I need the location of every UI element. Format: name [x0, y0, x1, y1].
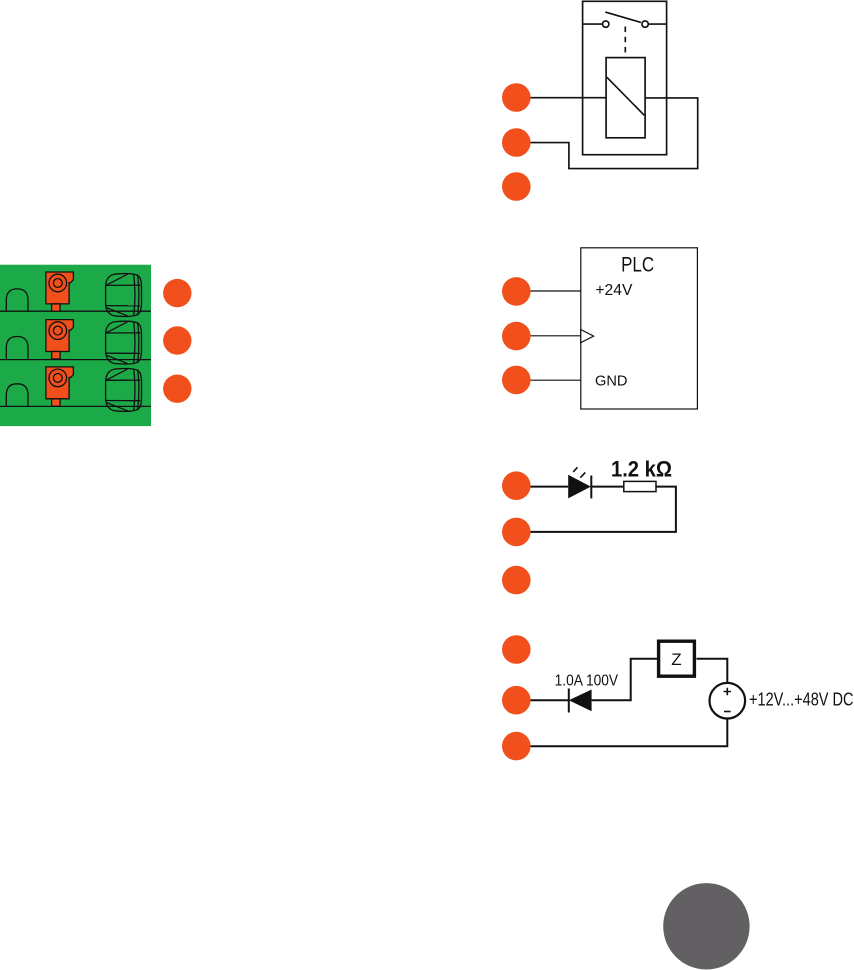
clamp top diagonal row1: [106, 274, 127, 285]
terminal row line 3: [0, 405, 151, 407]
clamp top diagonal row2: [106, 322, 127, 333]
screw outer circle row1: [49, 274, 67, 292]
screw inner circle row3: [53, 374, 62, 383]
relay contact wire right: [648, 23, 666, 25]
screw outer circle row2: [49, 322, 67, 340]
diode pin 1 (orange): [502, 635, 531, 664]
wire source to pin3: [516, 719, 727, 747]
wire pin2 to coil right (around bottom): [516, 98, 697, 169]
wire clamp outline row2: [106, 321, 142, 364]
terminal row line 1: [0, 310, 151, 312]
wire pin1 to +24V: [516, 290, 581, 292]
diode D2 cathode bar: [568, 689, 570, 713]
LED cathode bar: [590, 476, 592, 499]
LED D1 triangle: [568, 475, 591, 499]
clamp band line a row3: [134, 369, 135, 411]
arch row1: [6, 289, 28, 311]
svg-text:1.0A 100V: 1.0A 100V: [555, 672, 619, 689]
clamp screw body row3: [46, 367, 74, 399]
terminal pin 1 (orange): [163, 279, 191, 307]
wire diode to Z box: [592, 659, 657, 701]
screw inner circle row2: [53, 326, 62, 335]
clamp bottom diagonal row3: [106, 403, 127, 411]
clamp bottom horizontal row1: [106, 305, 141, 307]
clamp screw stem row3: [52, 399, 61, 406]
clamp screw body row2: [46, 320, 74, 352]
wire Z box to source: [697, 659, 728, 683]
relay pin 1 (orange): [502, 83, 531, 112]
PLC pin 3 (orange): [502, 366, 531, 395]
relay switch blade: [605, 12, 641, 22]
source plus sign: [724, 688, 731, 695]
clamp band line b row1: [138, 274, 139, 315]
clamp screw stem row2: [52, 352, 61, 359]
terminal row 3 group: [6, 367, 141, 411]
LED pin 3 (orange): [502, 566, 531, 595]
clamp band line a row1: [134, 274, 135, 316]
PLC input arrow: [581, 330, 594, 343]
wire resistor to pin2 (around right): [516, 487, 676, 532]
terminal block PCB body (green): [0, 265, 151, 426]
wire pin1 to coil left: [516, 97, 606, 99]
diode D2 triangle: [569, 690, 592, 712]
wire clamp outline row3: [106, 368, 142, 411]
clamp top horizontal row2: [106, 332, 141, 334]
gray dot: [663, 883, 749, 969]
wire pin2 to diode: [516, 699, 569, 701]
suppressor Z box: [659, 641, 695, 676]
clamp top horizontal row1: [106, 284, 141, 286]
wire pin1 to LED: [516, 486, 568, 488]
relay pin 2 (orange): [502, 128, 531, 157]
clamp screw stem row1: [52, 304, 61, 311]
diode pin 2 (orange): [502, 686, 531, 715]
source minus sign: [724, 711, 731, 713]
relay K1 outer box: [583, 1, 667, 154]
LED light ray 2: [580, 472, 585, 477]
arch row3: [6, 384, 28, 406]
svg-text:+12V...+48V DC: +12V...+48V DC: [749, 689, 854, 710]
clamp bottom diagonal row2: [106, 355, 127, 363]
wire clamp outline row1: [106, 274, 142, 317]
screw outer circle row3: [49, 369, 67, 387]
svg-text:+24V: +24V: [595, 282, 633, 299]
clamp band line b row3: [138, 369, 139, 410]
LED pin 2 (orange): [502, 518, 531, 547]
PLC box: [581, 248, 698, 409]
clamp band line a row2: [134, 321, 135, 363]
clamp top diagonal row3: [106, 369, 127, 380]
svg-text:Z: Z: [671, 650, 681, 669]
terminal row 2 group: [6, 320, 141, 364]
clamp top horizontal row3: [106, 379, 141, 381]
arch row2: [6, 337, 28, 359]
clamp bottom horizontal row2: [106, 352, 141, 354]
relay contact terminal right: [642, 21, 648, 27]
terminal row line 2: [0, 359, 151, 361]
PLC pin 1 (orange): [502, 277, 531, 306]
diode pin 3 (orange): [502, 732, 531, 761]
relay pin 3 (orange): [502, 172, 531, 201]
terminal pin 3 (orange): [163, 375, 191, 403]
clamp band line b row2: [138, 322, 139, 363]
relay contact wire left: [583, 23, 603, 25]
clamp screw body row1 (orange): [46, 272, 74, 304]
svg-text:PLC: PLC: [621, 254, 654, 277]
resistor R1 body: [624, 481, 656, 491]
screw inner circle row1: [53, 279, 62, 288]
LED light ray 1: [573, 467, 577, 472]
PLC pin 2 (orange): [502, 322, 531, 351]
wire pin3 to GND: [516, 379, 581, 381]
clamp bottom diagonal row1: [106, 308, 127, 316]
terminal row 1 group: [6, 272, 141, 316]
relay coil box: [606, 58, 645, 138]
svg-text:GND: GND: [595, 373, 628, 390]
terminal pin 2 (orange): [163, 326, 191, 354]
svg-text:1.2 kΩ: 1.2 kΩ: [611, 456, 672, 481]
clamp bottom horizontal row3: [106, 400, 141, 402]
wire LED to resistor: [591, 486, 624, 488]
relay coil diagonal: [607, 77, 645, 115]
relay actuator dashed link: [624, 27, 626, 58]
LED pin 1 (orange): [502, 471, 531, 500]
wire pin2 to input: [516, 335, 581, 337]
voltage source V1 circle: [710, 683, 746, 719]
relay contact terminal left: [603, 21, 609, 27]
